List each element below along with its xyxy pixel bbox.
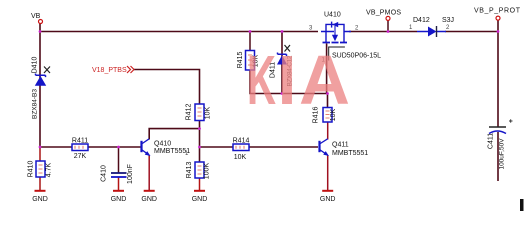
terminal VB [31,13,43,24]
svg-text:GND: GND [111,196,127,203]
svg-text:R412: R412 [186,104,193,121]
substrate arrow [334,26,336,35]
resistor R414 [233,138,250,162]
resistor R411 [72,138,88,161]
transistor Q410 [142,139,191,156]
wire Q411 emitter to GND [327,155,329,190]
svg-text:MMBT5551: MMBT5551 [332,150,368,157]
svg-text:C411: C411 [488,133,495,149]
wire R416 to Q411 collector [327,122,329,140]
wire R412 bottom to R413 top [199,121,201,163]
svg-text:C410: C410 [101,165,108,182]
svg-text:R414: R414 [233,138,250,145]
svg-text:BZX84-B3: BZX84-B3 [32,89,39,119]
svg-text:I: I [278,41,297,119]
wire U410 gate down [326,44,328,94]
svg-text:100K: 100K [204,163,211,180]
svg-text:GND: GND [141,196,157,203]
junction R414 node [198,146,201,149]
wire R415 bottom to gate node [250,70,328,94]
svg-text:S3J: S3J [442,17,454,24]
part bracket [329,47,345,61]
svg-text:VB_P_PROT: VB_P_PROT [474,8,521,15]
junction VB corner [39,30,42,33]
wire Q410 emitter to GND [148,155,150,190]
capacitor C411 [488,119,513,169]
junction D411 bottom [281,92,284,95]
resistor R412 [186,104,212,121]
svg-text:27K: 27K [74,153,87,160]
junction left base row [39,146,42,149]
ground R413 [192,191,208,203]
junction C410 top [117,146,120,149]
terminal VB_PMOS [366,10,401,32]
svg-text:R411: R411 [72,138,88,145]
resistor R415 [237,51,260,71]
mosfet U410 [309,12,381,64]
junction D411 top [281,30,284,33]
diode D412 [409,17,454,37]
no-fit X D411 [285,45,291,52]
svg-text:VB: VB [31,13,41,20]
wire V18_PTBS to R412 [134,70,200,105]
ground Q411 [320,191,336,203]
svg-text:100nF: 100nF [127,164,134,184]
port V18_PTBS [92,66,134,74]
wire base row left junction to Q410 base [40,146,141,148]
svg-text:K: K [247,41,276,119]
ground C410 [111,191,127,203]
body diode U410 [331,22,333,28]
wire U410 drain to D412 [349,31,417,33]
watermark KIA [247,41,350,119]
svg-text:Q410: Q410 [154,141,171,148]
zener diode D410 [32,57,51,119]
wire C410 to GND [118,178,120,191]
svg-text:R413: R413 [186,162,193,179]
resistor R410 [28,161,53,178]
resistor R413 [185,151,211,179]
svg-text:V18_PTBS: V18_PTBS [92,67,127,74]
wire right vertical VB_P_PROT down to C411 [497,21,499,127]
junction VB_P_PROT corner [497,30,500,33]
channel dashes [323,42,348,44]
ground Q410 [141,191,157,203]
svg-text:10K: 10K [205,106,212,119]
zener diode D411 [270,45,294,87]
svg-text:10K: 10K [234,154,247,161]
junction gate node [326,92,329,95]
wire C411 bottom [497,132,499,181]
svg-text:GND: GND [192,196,208,203]
wire D411 vertical [281,32,283,94]
junction R415 top [249,30,252,33]
wire gate node to R416 [327,94,329,108]
svg-text:GND: GND [320,196,336,203]
edge artifact bottom right [520,199,524,211]
svg-text:D410: D410 [32,57,39,74]
wire C410 stub [118,147,120,173]
wire node to R414 to Q411 base [200,146,319,148]
svg-text:4.7K: 4.7K [46,162,53,177]
svg-text:R410: R410 [28,161,35,178]
wire Q410 collector to node [149,129,199,140]
capacitor C410 [101,164,135,184]
transistor Q411 [320,139,369,157]
resistor R416 [313,107,338,124]
wire top rail VB to U410 [40,31,318,33]
svg-text:D412: D412 [413,17,430,24]
svg-text:Q411: Q411 [332,142,349,149]
no-fit X D410 [44,67,50,74]
junction R412 collector node [198,127,201,130]
wire left vertical rail [39,23,41,149]
wire R413 to GND [199,178,201,190]
svg-text:U410: U410 [324,12,341,19]
wire R415 hang [249,32,251,51]
svg-text:GND: GND [32,196,48,203]
svg-text:100uF,50V: 100uF,50V [499,138,506,170]
svg-text:R415: R415 [237,52,244,69]
wire D412 to VB_P_PROT corner [445,31,498,33]
svg-text:A: A [299,41,350,119]
svg-text:VB_PMOS: VB_PMOS [366,10,401,17]
ground R410 [32,191,48,203]
terminal VB_P_PROT [474,8,521,21]
junction VB_PMOS [387,30,390,33]
